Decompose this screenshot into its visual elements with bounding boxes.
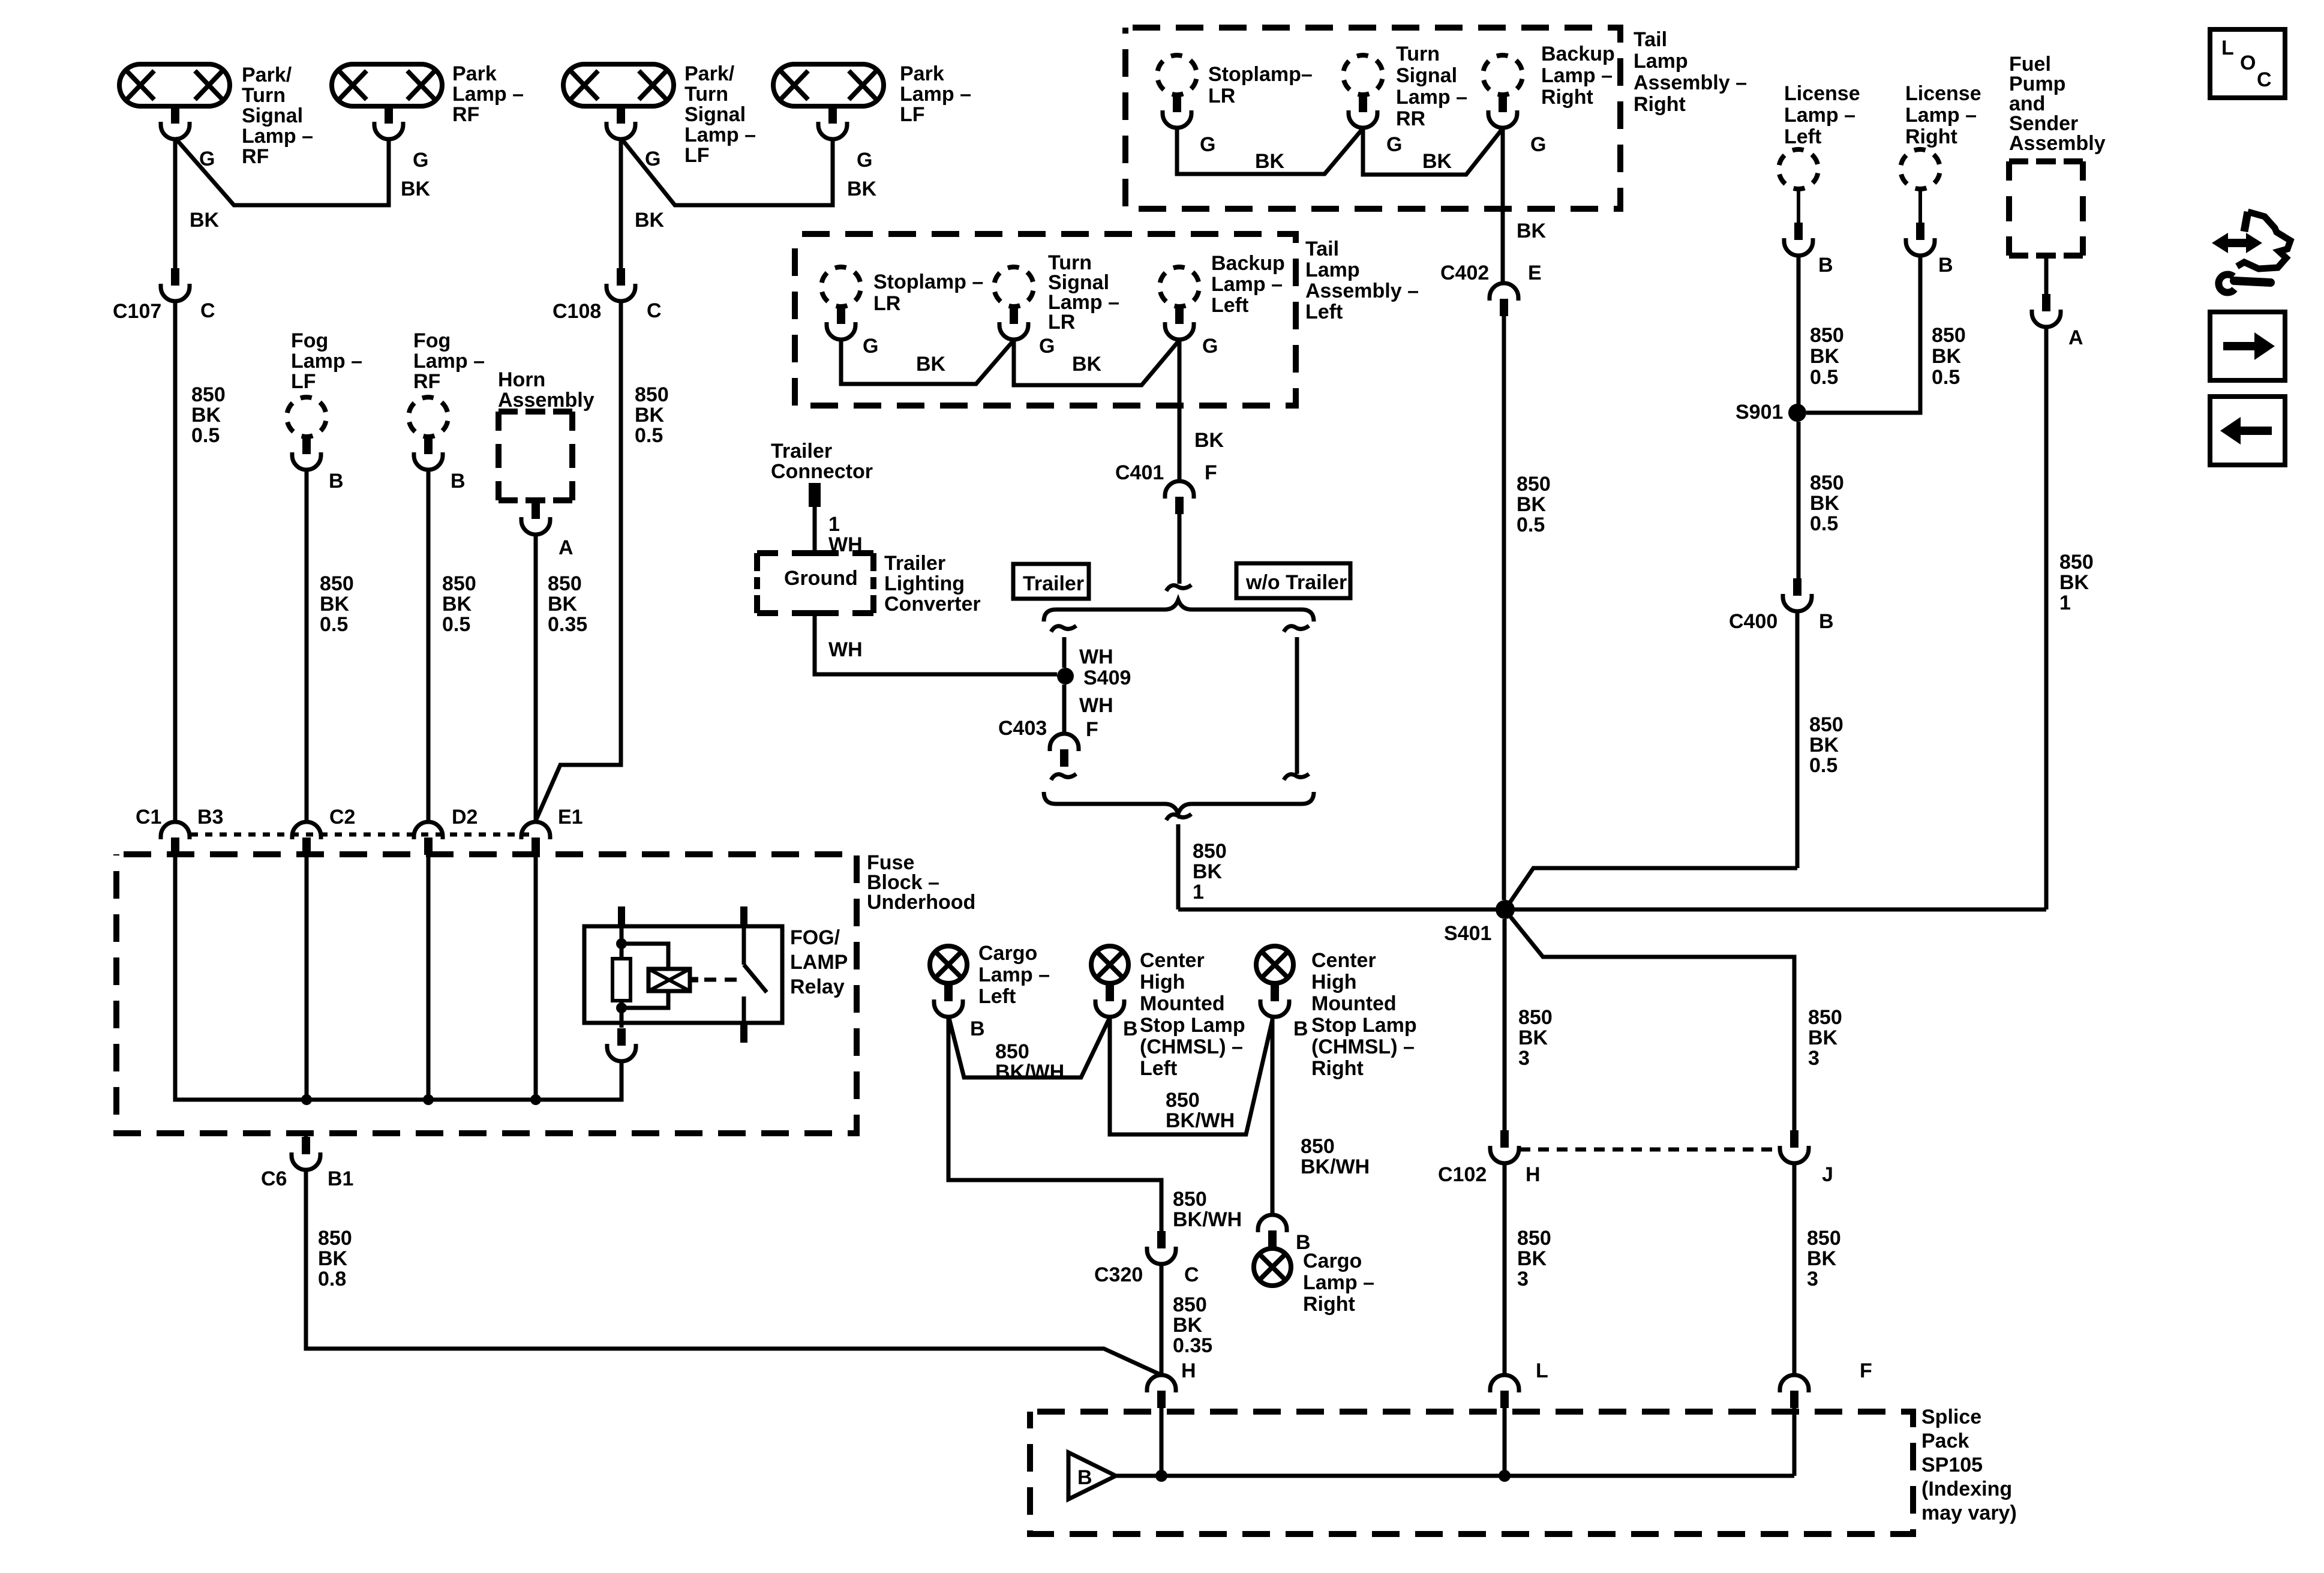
svg-text:G: G <box>863 335 878 358</box>
svg-text:H: H <box>1181 1359 1196 1382</box>
svg-text:B: B <box>1293 1017 1308 1040</box>
svg-text:O: O <box>2240 52 2256 74</box>
svg-text:F: F <box>1086 718 1098 741</box>
svg-text:FOG/LAMPRelay: FOG/LAMPRelay <box>790 926 848 998</box>
svg-text:BK: BK <box>635 209 665 232</box>
svg-text:G: G <box>1039 335 1055 358</box>
svg-text:C107: C107 <box>113 300 161 323</box>
svg-text:1: 1 <box>828 513 840 536</box>
svg-text:WH: WH <box>828 533 863 556</box>
svg-text:BK: BK <box>1255 150 1285 173</box>
svg-text:BK: BK <box>916 353 946 376</box>
svg-text:B: B <box>1818 254 1833 277</box>
svg-text:B: B <box>329 470 344 493</box>
svg-text:H: H <box>1526 1163 1541 1186</box>
svg-text:B3: B3 <box>197 806 223 828</box>
svg-text:C400: C400 <box>1729 610 1777 633</box>
svg-text:G: G <box>413 149 428 172</box>
svg-text:BK: BK <box>847 178 877 200</box>
svg-text:C403: C403 <box>998 717 1047 740</box>
svg-text:G: G <box>1386 133 1402 156</box>
svg-text:G: G <box>1200 133 1215 156</box>
svg-text:B: B <box>1819 610 1834 633</box>
svg-text:C: C <box>200 299 215 322</box>
svg-text:BK: BK <box>1422 150 1452 173</box>
svg-text:Ground: Ground <box>784 567 858 590</box>
svg-text:WH: WH <box>1079 694 1113 717</box>
svg-text:S409: S409 <box>1083 667 1131 689</box>
svg-text:A: A <box>559 536 574 559</box>
svg-text:C1: C1 <box>136 806 161 828</box>
svg-text:C108: C108 <box>553 300 601 323</box>
svg-text:C: C <box>647 299 662 322</box>
svg-text:E1: E1 <box>558 806 583 828</box>
svg-text:WH: WH <box>828 638 863 661</box>
svg-text:B: B <box>1123 1017 1138 1040</box>
svg-text:BK: BK <box>1194 429 1224 452</box>
svg-text:Trailer: Trailer <box>1023 572 1084 595</box>
svg-text:C: C <box>1184 1263 1199 1286</box>
svg-text:E: E <box>1528 262 1542 284</box>
svg-text:B: B <box>1077 1466 1092 1489</box>
svg-text:B: B <box>451 470 466 493</box>
svg-text:D2: D2 <box>452 806 478 828</box>
svg-text:L: L <box>1536 1359 1548 1382</box>
svg-text:C6: C6 <box>261 1167 287 1190</box>
svg-text:F: F <box>1205 461 1217 484</box>
svg-text:L: L <box>2221 37 2234 59</box>
svg-text:G: G <box>1202 335 1218 358</box>
svg-text:BK: BK <box>1072 353 1102 376</box>
svg-text:F: F <box>1860 1359 1872 1382</box>
svg-text:C: C <box>2257 68 2272 91</box>
svg-text:C102: C102 <box>1438 1163 1487 1186</box>
svg-text:B1: B1 <box>328 1167 353 1190</box>
svg-text:C401: C401 <box>1115 461 1164 484</box>
svg-text:C402: C402 <box>1440 262 1489 284</box>
svg-text:G: G <box>1530 133 1546 156</box>
svg-text:BK: BK <box>190 209 220 232</box>
svg-text:w/o Trailer: w/o Trailer <box>1245 571 1347 594</box>
svg-text:G: G <box>645 148 660 170</box>
svg-text:S401: S401 <box>1444 922 1491 945</box>
svg-text:G: G <box>199 148 215 170</box>
svg-text:A: A <box>2068 326 2083 349</box>
svg-text:BK: BK <box>401 178 431 200</box>
svg-text:G: G <box>857 149 872 172</box>
svg-text:C2: C2 <box>329 806 355 828</box>
svg-text:BK: BK <box>1517 220 1547 242</box>
svg-text:C320: C320 <box>1094 1263 1143 1286</box>
svg-text:S901: S901 <box>1736 401 1783 424</box>
svg-text:B: B <box>970 1017 985 1040</box>
svg-text:WH: WH <box>1079 646 1113 668</box>
svg-text:J: J <box>1822 1163 1833 1186</box>
svg-text:B: B <box>1938 254 1953 277</box>
